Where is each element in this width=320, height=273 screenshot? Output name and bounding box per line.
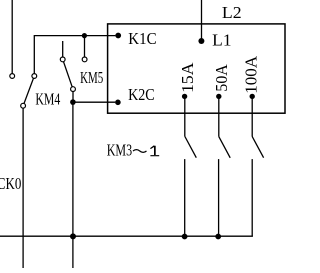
wire junction to K2C [73,101,115,103]
KM5 right fixed contact [82,57,87,62]
wire horizontal from KM4 top to K1C [34,36,115,74]
terminal 50A [216,94,221,99]
KM5 bottom common contact [71,87,76,92]
svg-text:CK0: CK0 [0,174,21,193]
terminal 100A [250,94,255,99]
bus node at 50A branch [215,234,221,240]
svg-text:L2: L2 [222,3,242,22]
wire 15A switch upper stub [184,99,186,137]
wire 50A switch upper stub [218,99,220,137]
svg-text:K2C: K2C [128,85,155,104]
wire 50A switch lower lead [218,159,220,236]
terminal K2C [115,100,121,106]
digit 1 of KM3~1 [150,145,159,156]
KM4 left fixed contact [10,74,15,79]
wire 15A switch lower lead [184,159,186,236]
svg-text:KM5: KM5 [80,68,103,87]
KM4 right fixed contact [32,74,37,79]
wire from node down to KM5 right contact [84,36,86,58]
controller box U1 [108,24,285,113]
wire L2 supply down into box [201,0,203,39]
wire KM5 common to junction [72,92,74,103]
bus node at KM5 branch [70,233,76,239]
svg-text:15A: 15A [178,62,197,93]
wire KM4 common down to bottom edge [22,108,24,268]
svg-text:50A: 50A [212,64,231,92]
bus wire bottom [0,235,253,237]
wire 100A switch upper stub [251,99,253,137]
KM5 left fixed contact [60,57,65,62]
terminal K1C [115,33,121,39]
junction node [70,99,76,105]
node on K1C wire [82,33,87,38]
svg-text:KM3: KM3 [107,141,132,160]
svg-text:K1C: K1C [128,29,156,48]
switch KM1 blade (100A) [252,137,263,158]
switch KM2 blade (50A) [219,137,230,158]
tilde of KM3~1 [133,150,147,153]
KM4 bottom common contact [21,103,26,108]
KM5 left stub wire (open end) [62,41,64,57]
switch KM4 blade [24,78,34,103]
wire 100A switch lower lead [251,159,253,236]
svg-text:KM4: KM4 [35,89,60,108]
terminal L1 [198,38,204,44]
wire left incoming stub to KM4 left contact [11,0,13,74]
svg-text:100A: 100A [242,55,261,94]
switch KM3 blade (15A) [185,137,196,158]
terminal 15A [182,94,187,99]
switch KM5 blade [64,62,73,87]
svg-text:L1: L1 [212,30,231,49]
wire junction down to bottom edge [72,102,74,268]
bus node at 15A branch [182,234,188,240]
